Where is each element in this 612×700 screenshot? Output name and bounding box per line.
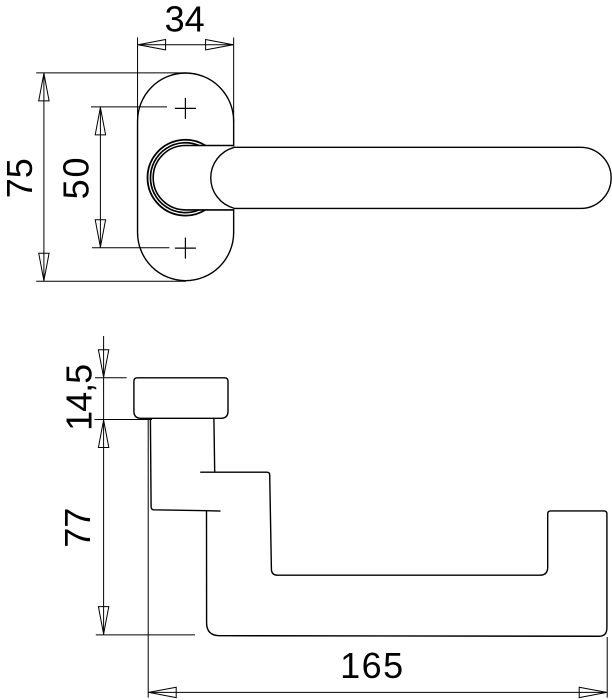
extension line rose top (95, 377, 127, 379)
grip profile outline (200, 472, 607, 636)
extension line bottom (36, 280, 186, 282)
arrow left (138, 40, 165, 50)
svg-text:75: 75 (0, 158, 40, 198)
dimension line (99, 107, 101, 248)
rose ring outer arc (148, 140, 206, 216)
extension line grip bottom (96, 634, 195, 636)
dimension line (148, 691, 607, 693)
dimension 50 (91, 107, 169, 248)
handle neck silhouette (153, 145, 234, 209)
oval rose outline (138, 73, 234, 281)
arrow up to rose bottom (98, 420, 108, 447)
extension line rose bottom (95, 419, 153, 421)
dimension line (43, 73, 45, 281)
arrow up (95, 108, 105, 135)
extension line bottom (92, 247, 169, 249)
arrow down (39, 253, 49, 280)
extension line left (137, 38, 139, 123)
extension line left (147, 419, 149, 698)
dimension 14,5 and 77 (95, 336, 196, 635)
mask over oval right edge hidden behind handle (232, 146, 236, 209)
rose ring inner arc (150, 143, 199, 213)
arrow right (579, 687, 606, 697)
svg-text:34: 34 (165, 0, 205, 40)
handle grip bar (234, 147, 611, 208)
extension line right (233, 38, 235, 123)
arrow down (95, 220, 105, 247)
arrow down to grip bottom (98, 607, 108, 634)
dimension 165 (148, 419, 607, 698)
svg-text:165: 165 (340, 645, 405, 686)
arrow up (39, 74, 49, 101)
svg-text:77: 77 (57, 508, 98, 548)
handle grip left cap arc (211, 147, 234, 208)
dimension 75 (36, 73, 186, 281)
arrow down to rose top (98, 350, 108, 377)
dimension line (138, 44, 234, 46)
rose plate side (134, 378, 228, 419)
arrow left (149, 687, 176, 697)
arrow right (206, 40, 233, 50)
SIDE VIEW (134, 378, 607, 636)
extension line top (91, 106, 167, 108)
neck left edge with lower step (150, 418, 220, 511)
svg-text:14,5: 14,5 (58, 365, 99, 431)
dimension 34 (138, 38, 234, 123)
screw cross bottom (175, 238, 196, 259)
extension line top (36, 72, 186, 74)
extension line right (606, 637, 608, 698)
svg-text:50: 50 (56, 156, 97, 200)
screw cross top (175, 98, 196, 119)
neck right edge (213, 418, 216, 472)
FRONT VIEW (138, 73, 234, 281)
shared dimension line (103, 336, 105, 635)
